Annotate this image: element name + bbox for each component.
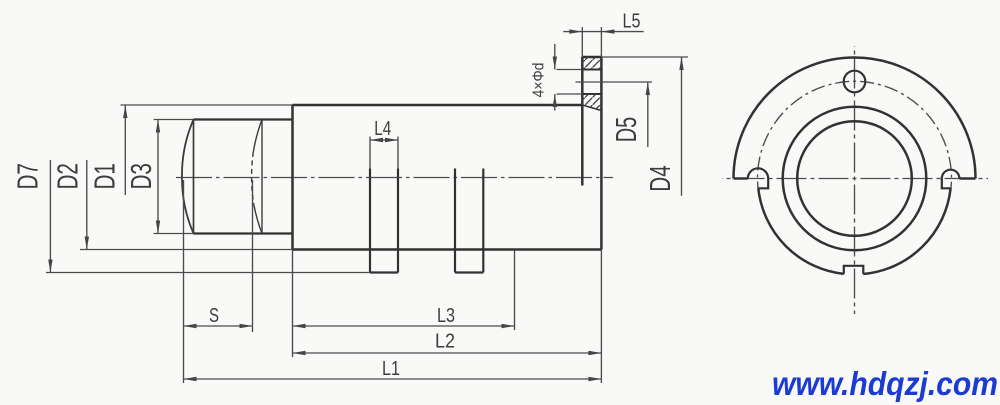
svg-text:D7: D7 [13,163,45,190]
bottom notch [844,266,864,274]
L3 arrows [293,324,306,328]
top bolt hole [844,71,866,93]
D2 dimension line [86,160,88,250]
left step [758,179,768,189]
D3 dimension line [157,120,159,234]
spherical face arc (left) [182,120,194,234]
D7 dimension line [49,160,51,273]
right bolt hole semicircle [942,170,960,179]
hatch region lower [582,94,601,111]
hole top extension line [557,69,583,71]
left bolt hole semicircle [748,168,768,178]
front view vertical centerline [854,46,856,314]
L2 arrows [293,351,306,355]
bolt hole top edge line [582,69,601,71]
flange top [582,56,601,59]
flange right edge [600,57,603,250]
D3 bottom extension line [154,233,194,235]
D2 bottom extension line [80,249,293,251]
body bottom line [293,248,602,251]
bottom arc left segment [758,188,844,274]
extension line flange right down [600,250,602,384]
D5 extension line [576,81,653,83]
slot 2 bottom [455,271,483,273]
hole bottom extension line [557,93,583,95]
D3 arrows [156,120,160,133]
L2 dimension line [293,352,602,354]
svg-text:D2: D2 [53,163,85,190]
S arrows [184,324,197,328]
phi-d arrows [553,57,557,70]
svg-text:L5: L5 [623,11,641,33]
outer flange arc (top half) [734,57,976,178]
slot 2 right edge [482,169,484,273]
L3 dimension line [293,325,515,327]
L4 dimension line [370,139,398,141]
body (D1 cylinder) top line [293,104,583,107]
extension line sphere left extreme [183,180,185,383]
svg-text:L3: L3 [437,305,455,327]
svg-text:L1: L1 [382,358,400,380]
extension line body left edge down [292,250,294,358]
bolt hole bottom edge line [582,93,601,95]
bolt circle (dash-dot arc) [758,81,952,195]
L1 arrows [184,377,197,381]
L4 arrows [370,138,383,142]
D4 arrow [679,57,683,70]
phi-d dimension line lower [554,94,556,111]
D1 arrow [123,105,127,118]
bore circle inner (D3) [797,121,912,236]
flange root chamfer diagonal [582,105,601,111]
L4 extension lines [369,137,371,169]
small cylinder bottom line [194,232,293,234]
svg-text:D1: D1 [89,163,121,190]
joint line left [734,177,748,180]
svg-text:L2: L2 [435,331,455,353]
small cylinder (D3) top line [194,118,293,120]
body left edge [291,105,294,250]
L1 dimension line [184,378,602,380]
small cylinder left edge (sphere rim chord) [193,120,195,234]
D2 arrow [85,237,89,250]
L5 extension lines [581,27,583,57]
inner spherical arc (solid bottom part) [254,205,262,234]
D5 dimension line [647,82,649,147]
S dimension line [184,325,253,327]
D7 arrow [48,260,52,273]
D7 bottom extension line [46,272,370,274]
extension line inner arc extreme [252,180,254,332]
slot 1 bottom [370,271,398,273]
bottom arc right segment [863,188,950,274]
L5 dimension line [563,31,643,33]
D4 dimension line [681,57,683,196]
hatch region upper [582,57,601,70]
right step [942,179,951,189]
slot 1 right edge [397,169,399,273]
svg-text:D4: D4 [645,165,677,192]
svg-text:D3: D3 [126,163,158,190]
D1 dimension line [124,105,126,195]
D1 top extension line [121,104,293,106]
inner spherical arc (dashed middle part) [252,152,254,205]
svg-text:S: S [209,305,219,327]
phi-d dimension line upper [554,44,556,70]
inner spherical arc chord [261,120,263,234]
front view horizontal centerline [722,178,988,180]
flange left edge [581,57,584,186]
svg-text:L4: L4 [374,118,391,140]
slot 2 left edge [454,169,456,273]
L5 arrows [569,29,582,33]
slot 1 left edge [369,169,371,273]
D5 arrow [646,82,650,95]
D3 top extension line [154,119,194,121]
svg-text:D5: D5 [611,117,643,143]
inner spherical arc (solid top part) [253,120,262,153]
D4 extension line (flange top extended) [601,56,688,58]
svg-text:4×Φd: 4×Φd [531,63,548,98]
bore circle outer (D1) [783,107,927,251]
axis centerline (side view) [176,177,613,179]
svg-text:www.hdqzj.com: www.hdqzj.com [772,365,998,402]
extension line L3 right [514,250,516,330]
joint line right [959,177,975,180]
